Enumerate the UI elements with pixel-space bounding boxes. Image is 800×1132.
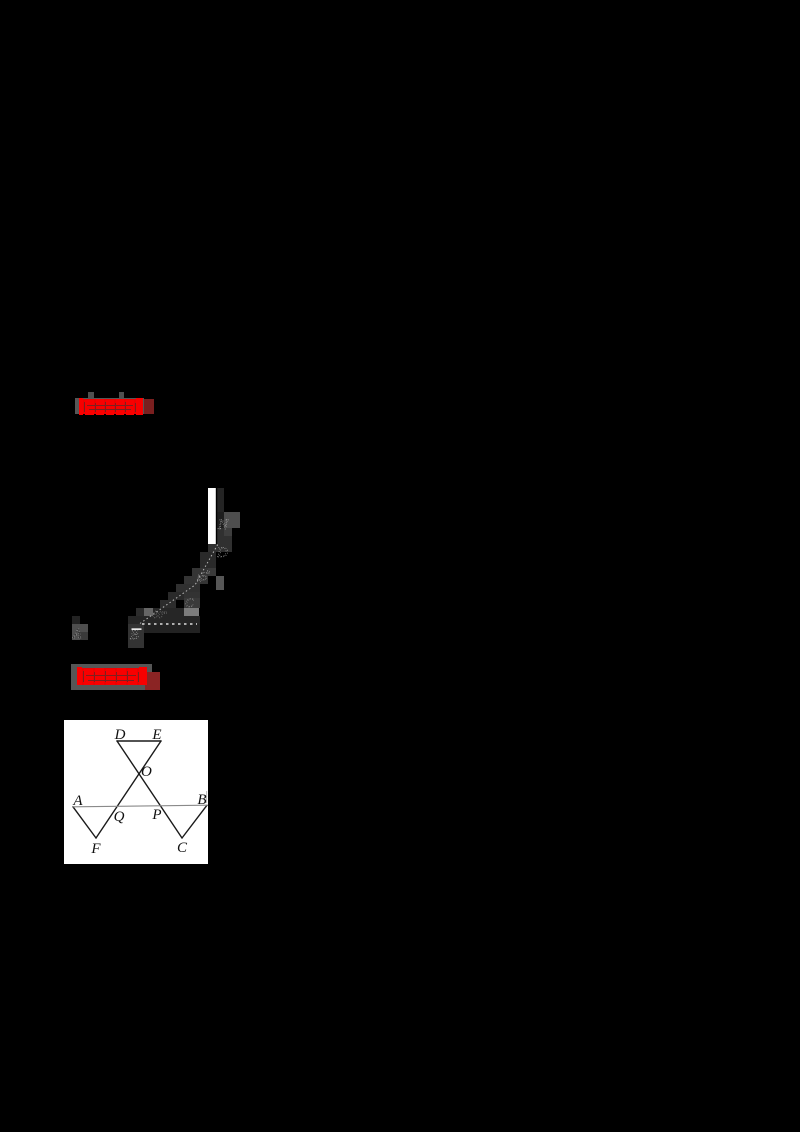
svg-text:N: N — [217, 517, 229, 533]
red heading 2 (training label) — [71, 664, 152, 690]
svg-text:P: P — [151, 807, 161, 823]
jpeg-block mosaic background patches — [72, 488, 240, 648]
svg-text:C: C — [177, 840, 188, 856]
line D through O,P to C — [117, 741, 182, 838]
red heading 1 (analysis label) — [88, 392, 94, 399]
svg-text:B: B — [197, 792, 206, 808]
line B-C — [182, 805, 207, 838]
slope dotted line B-C-D — [140, 544, 218, 624]
white pole DN — [208, 488, 216, 544]
small border artifact right of B — [205, 791, 208, 803]
svg-text:F: F — [90, 841, 101, 857]
line D-E — [117, 740, 161, 742]
svg-text:O: O — [141, 764, 152, 780]
svg-text:Q: Q — [114, 809, 125, 825]
red squeezed CJK text 1 — [79, 398, 144, 415]
svg-text:D: D — [216, 545, 228, 561]
figure 2: triangles image on white — [64, 720, 208, 864]
svg-text:A: A — [72, 793, 83, 809]
line E through O,Q to F — [96, 741, 161, 838]
line A-B — [73, 805, 207, 807]
svg-text:A: A — [72, 627, 82, 642]
red squeezed CJK text 2 — [77, 667, 148, 685]
svg-text:C: C — [185, 595, 194, 610]
line A-F — [73, 807, 96, 838]
svg-text:B: B — [130, 628, 139, 643]
svg-text:30°: 30° — [152, 610, 167, 621]
svg-text:D: D — [114, 727, 126, 743]
figure 1: faint slope diagram with white pole — [56, 480, 256, 660]
svg-text:E: E — [151, 727, 161, 743]
horizontal dotted line from B — [142, 623, 197, 625]
